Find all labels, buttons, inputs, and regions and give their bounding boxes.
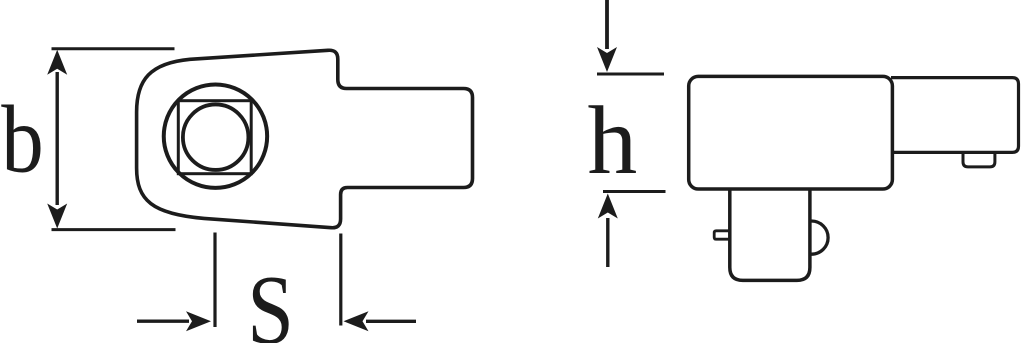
dimension S: right arrow (344, 311, 417, 331)
side view body (689, 76, 893, 189)
dimension h: bottom arrow (598, 194, 618, 268)
dimension b: dimension line with arrowheads (47, 50, 67, 229)
pin on left of drive (714, 231, 730, 239)
locking nub under tang (963, 152, 995, 167)
dimension S: right extension line (339, 234, 342, 326)
inner circle (183, 104, 249, 170)
dimension b: bottom extension line (52, 228, 176, 231)
svg-text:h: h (588, 87, 638, 194)
side view rectangular tang (891, 78, 1019, 153)
dimension h: bottom extension line (603, 190, 666, 193)
dimension h: top extension line (597, 73, 664, 76)
outer circle (drive boss) (164, 85, 267, 188)
square drive (side view) (730, 188, 810, 280)
dimension h: top arrow (597, 0, 617, 72)
dimension b: top extension line (52, 47, 175, 50)
insert-tool head outline (top view) (137, 50, 473, 227)
svg-text:S: S (247, 256, 294, 343)
dimension S: left extension line (213, 233, 216, 328)
ball detent on right of drive (812, 221, 829, 254)
svg-text:b: b (1, 86, 44, 193)
dimension S: left arrow (137, 311, 211, 331)
square drive hole (178, 101, 251, 174)
